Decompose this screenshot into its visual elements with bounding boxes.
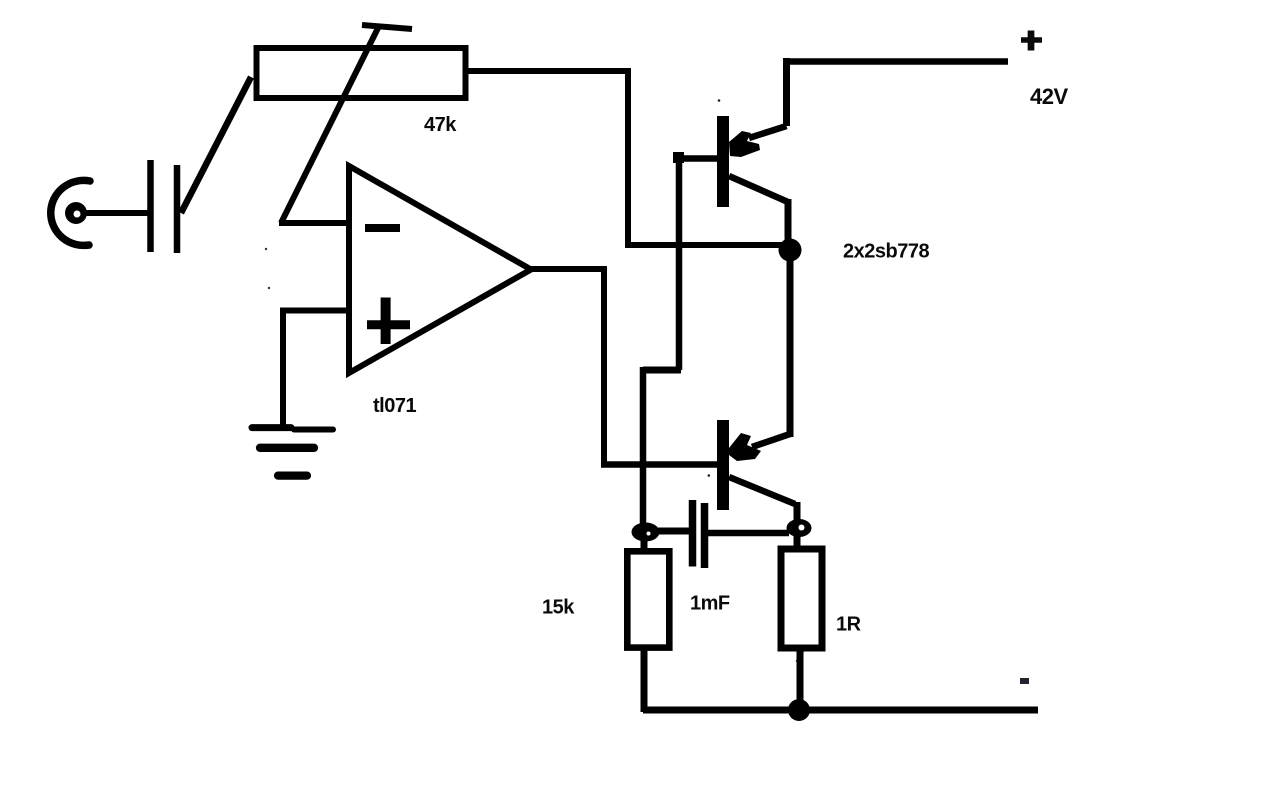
svg-text:2x2sb778: 2x2sb778 — [843, 241, 929, 263]
svg-text:42V: 42V — [1030, 84, 1068, 109]
svg-text:47k: 47k — [424, 114, 457, 136]
svg-text:1R: 1R — [836, 614, 862, 636]
svg-text:tl071: tl071 — [373, 395, 416, 417]
svg-text:15k: 15k — [542, 597, 575, 619]
svg-text:1mF: 1mF — [690, 593, 730, 615]
